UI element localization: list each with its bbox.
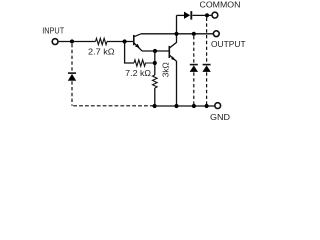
wire dashed common clamp drop bbox=[206, 18, 208, 64]
diode D4 triangle bbox=[202, 65, 210, 72]
wire input line bbox=[59, 41, 96, 43]
node common junction bbox=[205, 13, 209, 17]
diode D3 cathode bar bbox=[190, 64, 198, 66]
node emitter junction bbox=[153, 49, 157, 53]
svg-text:3kΩ: 3kΩ bbox=[161, 62, 170, 77]
wire Q1 emitter to Q2 base bbox=[142, 50, 169, 52]
node Q1 base junction bbox=[123, 39, 127, 43]
node rail junction clamp bbox=[192, 32, 196, 36]
node input junction bbox=[70, 39, 74, 43]
transistor Q1 base bar bbox=[133, 35, 135, 45]
terminal GND bbox=[215, 103, 221, 109]
terminal COMMON bbox=[212, 12, 218, 18]
svg-text:GND: GND bbox=[210, 112, 230, 122]
node resistor junction bbox=[153, 61, 157, 65]
svg-text:INPUT: INPUT bbox=[42, 26, 64, 36]
transistor Q2 base bar bbox=[168, 46, 170, 58]
wire common line bbox=[177, 14, 185, 16]
diode D1 cathode bar bbox=[68, 72, 76, 74]
diode D3 triangle bbox=[190, 65, 198, 72]
diode D2 series triangle bbox=[184, 12, 190, 19]
wire drop to 7.2k resistor bbox=[125, 42, 134, 64]
diode D1 triangle bbox=[68, 74, 76, 81]
transistor Q2 emitter arrow bbox=[171, 57, 175, 61]
wire dashed input protection drop bbox=[71, 44, 73, 72]
transistor Q1 emitter bbox=[134, 43, 142, 51]
node ground rail Q2 emitter bbox=[174, 104, 178, 108]
wire resistor to Q1 base bbox=[107, 41, 134, 43]
wire dashed output clamp drop bbox=[193, 36, 195, 64]
terminal OUTPUT bbox=[213, 31, 219, 37]
node ground rail 3k bbox=[153, 104, 157, 108]
transistor Q2 emitter bbox=[170, 55, 177, 106]
wire emitter junction down bbox=[154, 51, 156, 75]
wire diode to COMMON terminal bbox=[193, 14, 212, 16]
node rail junction Q2 collector bbox=[174, 32, 178, 36]
svg-text:OUTPUT: OUTPUT bbox=[211, 39, 246, 49]
resistor R3 3k vertical zigzag bbox=[153, 75, 158, 88]
wire dashed D4 to ground rail bbox=[206, 72, 208, 104]
node ground rail D3 bbox=[192, 104, 196, 108]
transistor Q1 emitter arrow bbox=[135, 44, 140, 49]
transistor Q1 collector bbox=[134, 34, 141, 37]
wire dashed diode to ground rail bbox=[71, 81, 73, 106]
wire dashed D3 to ground rail bbox=[193, 72, 195, 104]
terminal INPUT bbox=[52, 39, 58, 45]
wire ground rail bbox=[155, 105, 215, 107]
svg-text:7.2 kΩ: 7.2 kΩ bbox=[125, 68, 151, 78]
diode D2 cathode bar bbox=[190, 11, 192, 20]
transistor Q2 collector bbox=[170, 15, 177, 48]
resistor R2 7.2k zigzag bbox=[134, 60, 155, 66]
node ground rail D4 bbox=[205, 104, 209, 108]
wire 3k resistor to ground rail bbox=[154, 88, 156, 106]
wire collector rail OUTPUT bbox=[141, 33, 213, 35]
svg-text:2.7 kΩ: 2.7 kΩ bbox=[88, 47, 115, 57]
diode D4 cathode bar bbox=[203, 64, 211, 66]
resistor R1 2.7k zigzag bbox=[96, 38, 108, 44]
svg-text:COMMON: COMMON bbox=[200, 0, 241, 9]
